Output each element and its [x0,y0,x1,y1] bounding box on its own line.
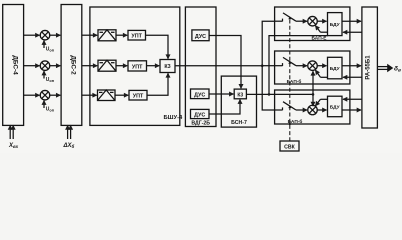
wire ДУС3 to К3б bottom [209,100,240,114]
wire БДУ3 feedback to mixer Mв [315,99,327,106]
wire F2 to УПТ2 [116,65,127,67]
node junction К3-БАП [261,64,264,67]
block БАП-В [275,90,350,124]
Uоп arrow into M2 [43,71,45,78]
block ВДГ-2Б [185,7,216,127]
svg-text:БДУ: БДУ [330,105,341,111]
svg-text:ДБС-2: ДБС-2 [70,55,77,75]
block БСН-7 [221,76,256,127]
wire РА feedback to БДУ3 [343,98,362,100]
wire M3 to ДБС-2 [50,94,61,96]
svg-text:БАП-Е: БАП-Е [312,36,328,42]
svg-text:ДБС-4: ДБС-4 [12,55,19,75]
wire ДБС-4 to mixer 2 [24,65,40,67]
block БАП-б [275,51,350,84]
svg-text:БШУ-4: БШУ-4 [164,115,184,121]
Uоп arrow into M3 [43,101,45,108]
svg-text:К3: К3 [237,92,243,98]
block СВК [280,141,299,151]
wire УПТ2 to К3 [147,65,160,67]
mixer M1 [40,30,50,40]
svg-text:Uоп: Uоп [46,107,55,113]
wire Mв to БДУ3 [317,109,326,111]
block РА-55Б1 [362,7,378,128]
wire БДУ1 output to РА [342,20,361,22]
dashed control wire СВК [289,20,291,142]
wire ДУС2 to К3б left [209,93,233,95]
filter F1 [98,30,116,41]
svg-text:БСН-7: БСН-7 [231,120,247,126]
svg-text:Uоп: Uоп [46,47,55,53]
wire Mа to БДУ1 [317,20,326,22]
wire M1 to ДБС-2 [50,34,61,36]
mixer Mв [308,105,318,115]
svg-text:УПТ: УПТ [133,94,144,100]
amplifier УПТ1 [128,30,146,40]
wire БДУ2 output to РА [342,65,361,67]
wire ДБС-2 to filter F3 [82,94,97,96]
wire branch up into mixer Mб bottom [312,71,314,94]
wire ДУС1 to К3б top [209,36,241,89]
wire F1 to УПТ1 [116,34,127,36]
svg-text:Uоп: Uоп [46,77,55,83]
node on К3б output [268,93,271,96]
block БШУ-4 [90,7,180,125]
input double arrow into ДБС-4 [10,125,13,139]
block БАП-Е [275,7,350,41]
wire branch down into mixer Mв top [312,94,314,106]
unit БДУ3 [328,96,343,117]
svg-text:БДУ: БДУ [330,66,341,72]
wire junction up to БАП-Е input [262,21,274,65]
switch SA2 [275,57,296,66]
mixer M2 [40,61,50,71]
svg-text:СВК: СВК [284,145,295,151]
svg-text:РА-55Б1: РА-55Б1 [366,55,372,80]
wire junction to БАП-б input [262,65,274,67]
wire БДУ3 output to РА [342,109,361,111]
wire РА feedback to БДУ1 [343,31,362,33]
wire К3б branch to БДУ1 bottom [269,36,328,95]
svg-text:БАП-б: БАП-б [287,78,302,85]
wire junction down to БАП-В input [262,66,274,110]
input double arrow into ДБС-2 [68,125,71,139]
wire switch to mixer Mб [296,65,307,67]
svg-text:ДУС: ДУС [194,92,205,98]
unit БДУ1 [328,13,343,36]
switch SA1 [275,13,296,22]
mixer Mб [308,61,318,71]
node at vertical branch [312,93,315,96]
sensor ДУС3 [191,109,210,118]
block ДБС-2 (second tall unit) [61,5,82,126]
svg-text:ДУС: ДУС [195,34,206,40]
wire switch to mixer Mа [296,20,307,22]
amplifier УПТ2 [128,61,147,71]
wire Mб to БДУ2 [317,65,326,67]
output double arrow δв [377,64,393,72]
wire УПТ3 to К3 bottom [147,73,168,95]
mixer M3 [40,90,50,100]
summing unit К3 (БСН-7) [234,89,246,99]
wire ДБС-2 to filter F1 [82,34,97,36]
wire ДБС-4 to mixer 1 [24,34,40,36]
wire БДУ2 feedback to mixer Mб [315,70,327,77]
node on БАП-В bottom edge [289,123,291,125]
wire РА feedback to БДУ2 [343,76,362,78]
wire F3 to УПТ3 [115,94,128,96]
svg-text:УПТ: УПТ [132,64,143,70]
svg-text:УПТ: УПТ [131,34,142,40]
unit БДУ2 [328,57,343,79]
sensor ДУС1 [192,30,209,41]
sensor ДУС2 [191,89,210,99]
wire switch to mixer Mв [296,109,307,111]
mixer Mа [308,16,318,26]
wire К3б output to mixer junction [246,93,313,95]
wire К3 output to БАП junction [175,65,262,67]
wire M2 to ДБС-2 [50,65,61,67]
filter F2 [98,60,116,71]
svg-text:ВДГ-2Б: ВДГ-2Б [191,121,210,127]
amplifier УПТ3 [129,90,147,100]
wire УПТ1 to К3 top [146,35,169,59]
wire ДБС-4 to mixer 3 [24,94,40,96]
switch SA3 [275,102,296,111]
summing unit К3 [160,60,175,73]
wire ДБС-2 to filter F2 [82,65,97,67]
svg-text:ΔXб: ΔXб [63,143,75,149]
Uоп arrow into M1 [43,41,45,48]
svg-text:БДУ: БДУ [330,22,341,28]
block ДБС-4 (left tall unit) [3,5,24,126]
svg-text:ДУС: ДУС [194,113,205,119]
svg-text:Xвх: Xвх [8,143,19,149]
filter F3 [98,90,116,101]
wire БДУ1 feedback to mixer Mа [315,26,327,33]
svg-text:К3: К3 [164,64,170,70]
